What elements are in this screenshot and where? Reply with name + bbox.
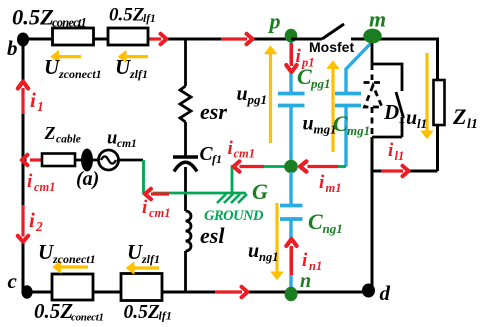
- wire il1 horizontal: [372, 170, 438, 173]
- arrow i2 down: [18, 205, 28, 242]
- svg-text:pg1: pg1: [310, 76, 331, 91]
- svg-text:pg1: pg1: [247, 92, 268, 107]
- svg-text:lf1: lf1: [159, 309, 172, 323]
- wire m to right corner: [373, 39, 438, 80]
- svg-text:u: u: [406, 107, 417, 129]
- svg-text:conect1: conect1: [71, 312, 104, 324]
- wire Cf1 to esl: [184, 167, 187, 211]
- arrow icm1 into bus: [22, 155, 41, 165]
- wire right branch down: [371, 137, 374, 290]
- arrow in1: [286, 239, 296, 275]
- svg-text:cm1: cm1: [234, 147, 256, 161]
- svg-text:i: i: [142, 197, 148, 218]
- wire mosfet to m: [351, 38, 373, 41]
- svg-text:i: i: [27, 171, 33, 192]
- arrow ung1: [271, 203, 283, 280]
- arrow ul1: [421, 53, 433, 139]
- svg-text:p: p: [268, 9, 281, 34]
- capacitor Cf1: [173, 155, 198, 159]
- svg-text:0.5Z: 0.5Z: [34, 299, 73, 323]
- arrow Uzconect1 bottom: [53, 261, 88, 273]
- svg-text:zlf1: zlf1: [141, 252, 160, 266]
- svg-text:conect1: conect1: [52, 16, 86, 30]
- svg-text:ng1: ng1: [323, 221, 343, 236]
- svg-text:f1: f1: [212, 152, 222, 166]
- inductor esl: [186, 211, 192, 251]
- switch D1 frame: [372, 43, 402, 137]
- source ucm1: [99, 150, 119, 170]
- arrow red top 2: [221, 34, 253, 44]
- svg-text:lf1: lf1: [143, 13, 156, 25]
- svg-text:0.5Z: 0.5Z: [109, 5, 145, 26]
- svg-text:G: G: [252, 179, 268, 204]
- svg-text:C: C: [333, 111, 348, 136]
- wire p to mosfet: [291, 38, 322, 41]
- resistor Zl1: [434, 80, 445, 125]
- wire cyan Cmg1 down: [344, 105, 347, 167]
- node m: [363, 29, 381, 44]
- svg-text:0.5Z: 0.5Z: [12, 5, 54, 30]
- svg-text:i: i: [388, 140, 394, 161]
- svg-text:Mosfet: Mosfet: [309, 39, 354, 55]
- svg-text:1: 1: [37, 99, 44, 114]
- svg-text:u: u: [248, 240, 259, 262]
- resistor 0.5Zconect1 top: [53, 28, 94, 45]
- svg-text:D: D: [383, 100, 399, 124]
- svg-text:l1: l1: [467, 117, 478, 132]
- wire Zcable branch: [23, 159, 143, 162]
- node mid green: [284, 160, 298, 174]
- svg-text:esl: esl: [200, 223, 225, 248]
- arrow il1: [381, 166, 409, 176]
- svg-text:i: i: [30, 88, 36, 112]
- resistor 0.5Zconect1 bottom: [52, 274, 93, 300]
- svg-text:n: n: [300, 270, 311, 292]
- resistor esr: [180, 86, 191, 122]
- arrow icm1 right: [234, 161, 265, 171]
- svg-text:i: i: [302, 250, 308, 271]
- resistor Zcable: [42, 154, 75, 167]
- wire cyan dot to Cng1: [289, 172, 292, 205]
- arrow red top 1: [150, 34, 167, 44]
- arrow Uzlf1 bottom: [127, 262, 160, 274]
- svg-text:i: i: [29, 208, 35, 232]
- wire esr branch: [184, 39, 187, 86]
- node a ellipse: [81, 149, 93, 172]
- switch mosfet blade: [322, 24, 344, 39]
- node c: [21, 285, 32, 299]
- wire green Cmg1 corner: [336, 165, 346, 168]
- node n: [285, 287, 298, 301]
- wire cyan p down: [289, 41, 292, 93]
- svg-text:zconect1: zconect1: [52, 252, 96, 266]
- arrow im1: [300, 161, 338, 171]
- svg-text:Z: Z: [44, 123, 56, 143]
- wire cyan Cpg1 to dot: [289, 105, 292, 167]
- svg-text:u: u: [303, 113, 314, 135]
- svg-text:m1: m1: [326, 181, 342, 195]
- wire left bus b to c: [22, 39, 25, 292]
- svg-text:cable: cable: [56, 134, 81, 146]
- wire green ucm1 to ground: [144, 160, 247, 193]
- wire Zl1 bottom: [436, 125, 439, 171]
- capacitor Cpg1: [278, 94, 305, 106]
- svg-text:C: C: [308, 209, 323, 234]
- node d: [362, 284, 375, 298]
- svg-text:b: b: [7, 36, 18, 60]
- wire cyan Cng1 to n: [289, 219, 292, 292]
- svg-text:ng1: ng1: [259, 250, 278, 264]
- wire bottom bus c to d: [23, 291, 369, 294]
- svg-text:(a): (a): [76, 168, 99, 190]
- svg-text:l1: l1: [417, 116, 427, 131]
- ground G hatch: [217, 194, 247, 203]
- arrow Uzconect1 top: [51, 51, 81, 63]
- node p: [285, 29, 298, 43]
- svg-text:cm1: cm1: [149, 206, 171, 220]
- svg-text:0.5Z: 0.5Z: [124, 302, 160, 323]
- svg-text:d: d: [380, 281, 391, 305]
- capacitor Cng1: [280, 206, 303, 220]
- svg-text:u: u: [237, 83, 248, 105]
- label tick on 0.5Zconect1 box: [78, 25, 81, 30]
- resistor 0.5Zlf1 top: [108, 28, 148, 45]
- arrow Uzlf1 top: [119, 51, 149, 63]
- resistor 0.5Zlf1 bottom: [121, 274, 162, 301]
- svg-text:m: m: [369, 7, 386, 32]
- wire green dot to ground: [232, 167, 287, 194]
- diode D1 dashed: [364, 64, 385, 137]
- svg-text:C: C: [297, 64, 312, 89]
- switch D1 blade: [396, 92, 404, 118]
- svg-text:zconect1: zconect1: [58, 67, 102, 81]
- svg-text:i: i: [319, 172, 325, 193]
- arrow red bottom: [215, 287, 248, 297]
- arrow upg1: [265, 46, 277, 143]
- arrow i1 up: [18, 82, 28, 115]
- svg-text:u: u: [107, 129, 117, 149]
- capacitor Cmg1: [335, 94, 361, 106]
- arrow icm1 mid: [145, 189, 169, 199]
- wire top bus b to p: [23, 38, 291, 41]
- arrow ip1: [286, 43, 296, 72]
- wire esl to bottom: [184, 251, 187, 292]
- svg-text:1: 1: [399, 111, 406, 126]
- svg-text:mg1: mg1: [347, 123, 370, 138]
- wire cyan m to Cmg1: [346, 41, 373, 93]
- svg-text:esr: esr: [200, 99, 227, 124]
- node b: [17, 33, 29, 47]
- svg-text:l1: l1: [395, 149, 405, 163]
- svg-text:Z: Z: [452, 104, 466, 129]
- wire esr to Cf1: [184, 122, 187, 157]
- svg-text:c: c: [8, 269, 18, 293]
- svg-text:cm1: cm1: [34, 180, 56, 194]
- svg-text:GROUND: GROUND: [204, 208, 264, 224]
- svg-text:zlf1: zlf1: [129, 67, 148, 81]
- arrow umg1: [327, 61, 339, 152]
- svg-text:2: 2: [35, 219, 43, 234]
- svg-text:cm1: cm1: [117, 138, 137, 150]
